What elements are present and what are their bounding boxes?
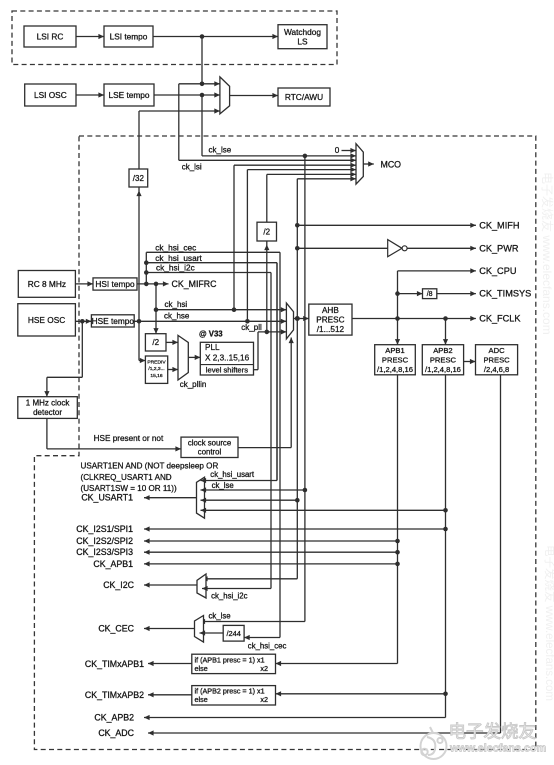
svg-text:Watchdog: Watchdog — [284, 27, 321, 37]
svg-text:CK_USART1: CK_USART1 — [81, 493, 133, 503]
svg-text:/244: /244 — [226, 629, 240, 638]
svg-text:X 2,3..15,16: X 2,3..15,16 — [205, 353, 250, 362]
svg-text:/8: /8 — [427, 291, 433, 298]
svg-text:/1,2,3...: /1,2,3... — [148, 366, 164, 372]
svg-text:电子发烧友 www.elecfans.com: 电子发烧友 www.elecfans.com — [543, 545, 554, 701]
svg-text:LSI RC: LSI RC — [37, 31, 64, 41]
svg-text:else: else — [195, 695, 208, 704]
svg-text:ck_hsi_cec: ck_hsi_cec — [248, 642, 287, 651]
svg-text:CK_I2C: CK_I2C — [103, 580, 134, 590]
svg-text:ck_hsi_i2c: ck_hsi_i2c — [156, 263, 195, 273]
svg-text:else: else — [195, 664, 208, 673]
svg-text:APB1: APB1 — [385, 346, 404, 355]
svg-text:CK_TIMxAPB1: CK_TIMxAPB1 — [85, 659, 144, 669]
svg-text:CK_APB1: CK_APB1 — [93, 559, 133, 569]
svg-text:/32: /32 — [133, 174, 145, 183]
svg-text:level shifters: level shifters — [206, 366, 248, 375]
svg-text:CK_I2S2/SPI2: CK_I2S2/SPI2 — [76, 536, 133, 546]
svg-text:CK_I2S1/SPI1: CK_I2S1/SPI1 — [76, 524, 133, 534]
svg-text:CK_TIMxAPB2: CK_TIMxAPB2 — [85, 690, 144, 700]
svg-text:CK_APB2: CK_APB2 — [94, 713, 134, 723]
svg-text:USART1EN AND (NOT deepsleep OR: USART1EN AND (NOT deepsleep OR — [81, 462, 219, 471]
svg-text:LSE tempo: LSE tempo — [108, 90, 149, 100]
svg-text:电子发烧友 www.elecfans.com: 电子发烧友 www.elecfans.com — [540, 172, 554, 335]
svg-text:HSI tempo: HSI tempo — [95, 279, 135, 289]
svg-text:AHB: AHB — [322, 306, 339, 315]
svg-text:0: 0 — [335, 146, 340, 155]
svg-text:电子发烧友: 电子发烧友 — [449, 722, 537, 742]
svg-text:ck_lsi: ck_lsi — [182, 162, 202, 171]
svg-text:/2: /2 — [152, 338, 159, 347]
svg-text:LSI tempo: LSI tempo — [110, 31, 148, 41]
svg-text:/1...512: /1...512 — [317, 325, 345, 334]
svg-text:(CLKREQ_USART1 AND: (CLKREQ_USART1 AND — [81, 473, 172, 482]
svg-text:APB2: APB2 — [433, 346, 452, 355]
svg-text:x2: x2 — [260, 664, 268, 673]
svg-text:CK_CPU: CK_CPU — [479, 266, 516, 276]
svg-text:1 MHz clock: 1 MHz clock — [26, 399, 71, 408]
svg-text:HSE present or not: HSE present or not — [94, 434, 164, 443]
svg-text:control: control — [198, 448, 222, 457]
svg-text:x2: x2 — [260, 695, 268, 704]
svg-text:ck_lse: ck_lse — [209, 146, 232, 155]
svg-text:ck_lse: ck_lse — [209, 611, 231, 620]
svg-text:CK_PWR: CK_PWR — [479, 243, 519, 253]
svg-text:CK_TIMSYS: CK_TIMSYS — [479, 289, 531, 299]
svg-text:RTC/AWU: RTC/AWU — [285, 92, 323, 102]
svg-text:/1,2,4,8,16: /1,2,4,8,16 — [377, 365, 413, 374]
svg-text:15,16: 15,16 — [150, 373, 163, 379]
svg-text:ADC: ADC — [489, 346, 506, 355]
svg-text:/1,2,4,8,16: /1,2,4,8,16 — [425, 365, 461, 374]
svg-text:ck_pllin: ck_pllin — [180, 380, 207, 389]
svg-text:www.elecfans.com: www.elecfans.com — [449, 743, 546, 755]
svg-text:HSE tempo: HSE tempo — [92, 316, 135, 326]
svg-text:clock source: clock source — [188, 439, 231, 448]
svg-text:CK_MIFH: CK_MIFH — [479, 220, 519, 230]
svg-text:PRESC: PRESC — [316, 316, 344, 325]
svg-text:detector: detector — [33, 408, 62, 417]
svg-text:ck_hsi_usart: ck_hsi_usart — [210, 470, 255, 479]
svg-text:ck_lse: ck_lse — [212, 481, 234, 490]
svg-text:ck_hsi_i2c: ck_hsi_i2c — [211, 591, 248, 600]
svg-text:HSE OSC: HSE OSC — [28, 315, 65, 325]
svg-text:PRESC: PRESC — [382, 355, 409, 364]
svg-text:LS: LS — [297, 36, 308, 46]
svg-text:ck_hsi_usart: ck_hsi_usart — [155, 253, 202, 263]
svg-text:PRESC: PRESC — [430, 355, 457, 364]
svg-text:/2,4,6,8: /2,4,6,8 — [484, 365, 509, 374]
svg-text:@ V33: @ V33 — [199, 330, 223, 339]
svg-text:ck_hsi_cec: ck_hsi_cec — [155, 242, 196, 252]
svg-text:RC 8 MHz: RC 8 MHz — [28, 279, 66, 289]
svg-text:CK_FCLK: CK_FCLK — [479, 314, 521, 324]
svg-text:PLL: PLL — [205, 343, 220, 352]
svg-text:ck_pll: ck_pll — [241, 323, 262, 332]
svg-text:ck_hse: ck_hse — [164, 311, 190, 320]
svg-text:/2: /2 — [263, 227, 270, 236]
svg-text:CK_I2S3/SPI3: CK_I2S3/SPI3 — [76, 547, 133, 557]
svg-text:CK_CEC: CK_CEC — [98, 624, 134, 634]
svg-text:MCO: MCO — [381, 159, 402, 169]
svg-text:CK_ADC: CK_ADC — [98, 728, 134, 738]
svg-text:CK_MIFRC: CK_MIFRC — [172, 279, 218, 289]
svg-text:PRESC: PRESC — [483, 355, 510, 364]
svg-text:ck_hsi: ck_hsi — [165, 300, 188, 309]
svg-text:PREDIV: PREDIV — [147, 359, 166, 365]
svg-text:LSI OSC: LSI OSC — [34, 90, 67, 100]
